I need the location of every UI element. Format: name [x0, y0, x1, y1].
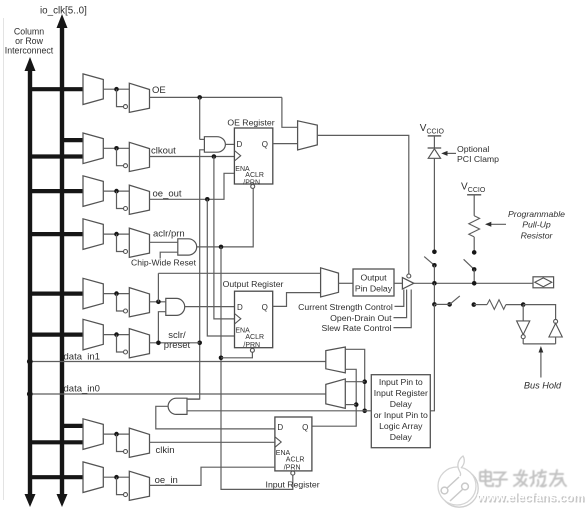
- node clkin feedback junction: [114, 432, 119, 437]
- svg-text:Optional: Optional: [457, 144, 489, 154]
- svg-text:Chip-Wide Reset: Chip-Wide Reset: [131, 258, 197, 268]
- node clkout branch: [212, 154, 217, 159]
- io_clk[5..0] bus (vertical, arrows both ends): [60, 26, 64, 497]
- svg-text:Current Strength Control: Current Strength Control: [298, 302, 393, 312]
- mux dout second-stage: [129, 288, 149, 317]
- I/O pin pad symbol: [533, 277, 554, 288]
- inverter bubble clkout mux input: [124, 164, 128, 168]
- mux clkout second-stage: [129, 142, 149, 171]
- resistor programmable pull-up: [469, 216, 480, 237]
- svg-text:ACLR: ACLR: [245, 334, 264, 341]
- wire pin to bus-hold switch: [434, 303, 449, 305]
- fa: [519, 470, 521, 474]
- zi: [494, 473, 505, 479]
- node delayed input branch: [362, 379, 367, 384]
- node data_out branch: [156, 300, 161, 305]
- svg-text:oe_in: oe_in: [155, 475, 178, 486]
- wire clkout feedback loop: [117, 148, 124, 165]
- bubble output register PRN: [250, 348, 254, 352]
- svg-text:CCIO: CCIO: [427, 129, 445, 136]
- svg-text:Slew Rate Control: Slew Rate Control: [321, 323, 391, 333]
- svg-text:Delay: Delay: [390, 432, 413, 442]
- wire resistor to switch: [473, 237, 475, 253]
- AND gate at output register D input: [166, 298, 185, 315]
- svg-text:D: D: [277, 423, 283, 432]
- svg-text:Delay: Delay: [390, 399, 413, 409]
- wire bus-hold bottom rail: [523, 343, 555, 345]
- node pin net junction 1: [432, 281, 437, 286]
- wire VCCIO to clamp diode: [433, 136, 435, 148]
- wire interconnect stub to OE mux: [28, 87, 84, 91]
- node clkout feedback junction: [114, 146, 119, 151]
- svg-text:D: D: [237, 140, 243, 149]
- wire interconnect stub to oe_in mux: [28, 475, 84, 479]
- block Output Pin Delay: [353, 269, 394, 296]
- wire oe_out feedback loop: [117, 191, 124, 208]
- wire interconnect stub to clkout mux: [28, 154, 84, 158]
- svg-text:oe_out: oe_out: [153, 189, 182, 200]
- node clamp switch bottom: [432, 263, 437, 268]
- wire OE down to OE-register AND: [199, 97, 201, 139]
- wire OE to output-enable mux top input: [282, 97, 298, 127]
- wire delayed input to input AND: [187, 410, 365, 412]
- wire dout mux1 to mux2: [103, 293, 129, 295]
- svg-text:OE Register: OE Register: [227, 118, 274, 128]
- flip-flop OE Register: [234, 128, 272, 184]
- wire interconnect stub to aclr mux: [28, 232, 84, 236]
- wire slew rate control: [394, 290, 412, 328]
- wire input register Q to data_in1 mux: [312, 369, 356, 426]
- wire open-drain out: [394, 290, 407, 318]
- wire interconnect stub to oe_out mux: [28, 189, 84, 193]
- svg-text:Q: Q: [262, 303, 268, 312]
- wire io_clk stub to clkin mux: [60, 424, 84, 428]
- svg-text:CCIO: CCIO: [468, 187, 486, 194]
- label Bus Hold with arrow: [540, 350, 542, 378]
- node oe_out branch: [205, 197, 210, 202]
- mux sclr first-stage: [83, 319, 103, 350]
- svg-text:Q: Q: [262, 140, 268, 149]
- node aclr to output register PRN: [219, 356, 224, 361]
- svg-text:ACLR: ACLR: [245, 172, 264, 179]
- inverter bubble oe_out mux input: [124, 207, 128, 211]
- wire clkout mux1 to mux2: [103, 147, 129, 149]
- watermark elecfans logo: [433, 452, 489, 510]
- AND gate at input register D input (mirrored): [168, 398, 187, 414]
- inverter bubble oe_in mux input: [124, 493, 128, 497]
- mux oe_in first-stage: [83, 462, 103, 493]
- wire input AND output to input register D: [156, 406, 275, 429]
- you: [550, 473, 563, 475]
- mux aclr first-stage: [83, 219, 103, 250]
- wire bus-hold feedback top: [523, 305, 555, 320]
- column/row interconnect bus (vertical, arrows both ends): [28, 69, 32, 497]
- wire oe_out down to output register ENA: [207, 199, 234, 336]
- switch bus-hold enable: [450, 296, 460, 305]
- wire delayed line into delay block: [365, 410, 372, 412]
- svg-text:PCI Clamp: PCI Clamp: [457, 154, 499, 164]
- svg-text:Pin Delay: Pin Delay: [355, 284, 393, 294]
- wire data_out up to bypass: [157, 273, 159, 302]
- inverter bubble OE mux input: [124, 105, 128, 109]
- dian: [480, 472, 491, 481]
- mux output-enable select: [298, 121, 318, 150]
- wire pin to input delay block: [430, 304, 434, 410]
- wire aclr feedback loop: [117, 234, 124, 251]
- mux OE second-stage: [129, 83, 149, 112]
- mux clkout first-stage: [83, 133, 103, 164]
- node data_in0 on interconnect: [27, 391, 33, 397]
- wire delayed input to data_in1 mux: [345, 349, 364, 411]
- watermark chinese text (vector strokes): [476, 468, 576, 494]
- block Input Pin Delay: [371, 375, 430, 448]
- inverter bubble aclr mux input: [124, 250, 128, 254]
- mux dout first-stage: [83, 278, 103, 309]
- mux aclr second-stage: [129, 228, 149, 257]
- node oe_in feedback junction: [114, 475, 119, 480]
- wire oe_in feedback loop: [117, 477, 124, 494]
- inverter bubble dout mux input: [124, 309, 128, 313]
- wire oe_in to input register ENA: [150, 467, 275, 485]
- flip-flop Input Register: [275, 417, 312, 471]
- node aclr feedback junction: [114, 232, 119, 237]
- node clamp switch top: [432, 250, 437, 255]
- wire sclr/preset vertical trunk: [187, 150, 204, 399]
- wire to bus-hold resistor: [474, 304, 487, 306]
- bubble forward inverter: [521, 335, 525, 339]
- wire OE feedback loop: [117, 89, 124, 106]
- wire enable to tri-state buffer: [317, 135, 409, 274]
- wire OE mux1 to mux2: [103, 88, 129, 90]
- node pull-up switch top: [472, 250, 477, 255]
- wire clkin mux1 to mux2: [103, 433, 129, 435]
- wire sclr feedback loop: [117, 335, 124, 352]
- svg-text:data_in0: data_in0: [64, 383, 100, 394]
- wire register bypass to output mux: [158, 272, 320, 274]
- wire dout feedback loop: [117, 294, 124, 311]
- mux clkin second-stage: [129, 428, 149, 457]
- node sclr feedback junction: [114, 332, 119, 337]
- wire to output pin delay: [339, 282, 354, 284]
- wire aclr to output register PRN bubble: [221, 352, 252, 357]
- svg-text:Output Register: Output Register: [223, 279, 284, 289]
- wire aclr down to input register PRN: [221, 247, 293, 490]
- svg-text:preset: preset: [164, 340, 191, 351]
- wire interconnect stub to sclr mux: [28, 333, 84, 337]
- svg-text:Programmable: Programmable: [508, 209, 565, 219]
- wire oe_in mux1 to mux2: [103, 476, 129, 478]
- node pull-up switch bottom: [472, 267, 477, 272]
- watermark url: [477, 490, 584, 504]
- clock triangle input register: [275, 437, 281, 448]
- mux oe_out first-stage: [83, 176, 103, 207]
- wire clamp diode to switch: [433, 158, 435, 252]
- switch PCI clamp enable: [424, 257, 434, 266]
- mux data_in1 select: [326, 347, 346, 373]
- diode optional PCI clamp: [428, 147, 442, 149]
- svg-text:or Input Pin to: or Input Pin to: [374, 410, 428, 420]
- node oe_out feedback junction: [114, 189, 119, 194]
- wire aclr/prn to AND: [150, 241, 178, 243]
- flip-flop Output Register: [235, 291, 273, 348]
- wire oe_out to OE register ENA: [150, 173, 235, 199]
- svg-text:Logic Array: Logic Array: [379, 421, 423, 431]
- svg-text:clkout: clkout: [151, 146, 176, 157]
- mux sclr second-stage: [129, 329, 149, 358]
- inverter bubble sclr mux input: [124, 350, 128, 354]
- svg-text:Input Pin to: Input Pin to: [379, 377, 423, 387]
- wire VCCIO to pull-up resistor: [473, 195, 475, 216]
- wire sclr mux1 to mux2: [103, 334, 129, 336]
- wire pin net down: [433, 283, 435, 304]
- wire aclr mux1 to mux2: [103, 233, 129, 235]
- shao: [533, 471, 535, 483]
- node data_in1 on interconnect: [27, 359, 33, 365]
- wire resistor to bus-hold cell: [506, 304, 523, 306]
- wire aclr to OE register PRN: [197, 188, 253, 247]
- label Programmable Pull-Up Resistor with arrow: [488, 223, 506, 225]
- wire sclr/preset: [150, 342, 200, 344]
- inverter bus-hold feedback (pointing up): [549, 323, 562, 337]
- wire clkout down to output register clock: [214, 157, 235, 319]
- svg-text:or Row: or Row: [15, 36, 44, 46]
- faint page margin line: [3, 18, 5, 500]
- svg-text:Q: Q: [302, 423, 308, 432]
- node pin net bus-hold tap: [432, 302, 437, 307]
- svg-text:aclr/prn: aclr/prn: [153, 229, 185, 240]
- wire clkin feedback loop: [117, 434, 124, 451]
- label Optional PCI Clamp with arrow: [444, 152, 456, 154]
- wire sclr to input AND: [187, 398, 200, 400]
- svg-text:Column: Column: [14, 27, 44, 37]
- node aclr branch: [219, 245, 224, 250]
- wire registered input to data_in0 mux: [345, 404, 356, 406]
- wire delay to tri-state buffer: [394, 282, 402, 284]
- wire feedback inverter to bottom rail: [555, 337, 557, 344]
- resistor bus hold: [487, 300, 506, 310]
- node sclr trunk junction: [197, 341, 202, 346]
- bubble input register PRN: [291, 471, 295, 475]
- node delayed input tap: [362, 409, 367, 414]
- wire interconnect stub to clkin mux: [28, 440, 84, 444]
- svg-text:/PRN: /PRN: [284, 465, 301, 472]
- node sclr junction: [156, 341, 161, 346]
- svg-text:data_in1: data_in1: [64, 351, 100, 362]
- mux clkin first-stage: [83, 419, 103, 450]
- node OE feedback junction: [114, 87, 119, 92]
- svg-text:Input Register: Input Register: [266, 480, 320, 490]
- wire data_out to AND: [150, 301, 166, 303]
- wire switch to pin net: [433, 265, 435, 283]
- node pin net junction 2: [472, 281, 477, 286]
- node dout feedback junction: [114, 291, 119, 296]
- buffer tri-state output driver: [402, 278, 413, 289]
- bubble feedback inverter: [554, 319, 558, 323]
- svg-text:D: D: [237, 303, 243, 312]
- switch pull-up enable: [464, 259, 475, 269]
- node registered input branch: [354, 402, 359, 407]
- mux output select: [321, 268, 339, 297]
- wire clkout to OE register clock: [150, 156, 235, 158]
- wire current strength control: [395, 290, 404, 307]
- svg-text:Input Register: Input Register: [374, 388, 428, 398]
- node bus-hold cell top: [521, 302, 526, 307]
- inverter bubble clkin mux input: [124, 450, 128, 454]
- wire delayed input to data_in0 mux: [345, 381, 364, 383]
- wire pull-up to pin net: [473, 269, 475, 283]
- clock triangle output register: [235, 314, 241, 325]
- svg-text:Open-Drain Out: Open-Drain Out: [330, 313, 392, 323]
- svg-text:Resistor: Resistor: [521, 230, 554, 240]
- mux oe_out second-stage: [129, 185, 149, 214]
- mux OE first-stage: [83, 74, 103, 105]
- wire oe_out mux1 to mux2: [103, 190, 129, 192]
- mux oe_in second-stage: [129, 471, 149, 500]
- AND gate chip-wide reset / aclr: [178, 239, 197, 255]
- svg-text:Pull-Up: Pull-Up: [522, 220, 551, 230]
- svg-text:ACLR: ACLR: [286, 457, 305, 464]
- mux data_in0 select: [326, 379, 346, 409]
- svg-text:io_clk[5..0]: io_clk[5..0]: [40, 6, 87, 17]
- power rail tick VCCIO 2: [467, 194, 481, 196]
- wire AND output to output register D: [185, 306, 235, 308]
- node OE branch: [197, 95, 202, 100]
- wire data_in0: [30, 393, 326, 395]
- wire clkin to input register clock: [150, 441, 275, 443]
- svg-text:Bus Hold: Bus Hold: [524, 380, 562, 390]
- svg-text:OE: OE: [152, 85, 166, 96]
- bubble tri-state enable: [407, 274, 411, 278]
- pin pad diamond: [535, 278, 552, 287]
- clock triangle OE register: [234, 151, 240, 162]
- inverter bus-hold forward (pointing down): [517, 321, 530, 335]
- wire chip-wide reset to AND: [160, 252, 178, 258]
- AND gate at OE register D input: [204, 137, 225, 153]
- wire into forward inverter: [522, 305, 524, 321]
- wire OE register Q to mux: [273, 143, 298, 145]
- node bus-hold resistor left: [472, 302, 477, 307]
- svg-text:clkin: clkin: [156, 445, 175, 456]
- wire forward inverter to bottom rail: [522, 339, 524, 344]
- wire io_clk stub to clkout mux: [60, 138, 84, 142]
- wire sclr to output AND: [158, 312, 165, 343]
- wire output register Q to output mux: [273, 293, 321, 307]
- bubble OE register PRN: [251, 184, 255, 188]
- svg-text:Interconnect: Interconnect: [5, 46, 54, 56]
- wire interconnect stub to dout mux: [28, 292, 84, 296]
- power rail tick VCCIO: [428, 135, 442, 137]
- wire to I/O pin: [414, 282, 533, 284]
- node bus-hold switch left: [447, 302, 452, 307]
- wire AND output to D: [225, 143, 234, 145]
- wire AND top input: [200, 138, 205, 140]
- wire data_in1: [30, 361, 326, 363]
- wire OE signal: [150, 96, 282, 98]
- svg-text:Output: Output: [360, 273, 387, 283]
